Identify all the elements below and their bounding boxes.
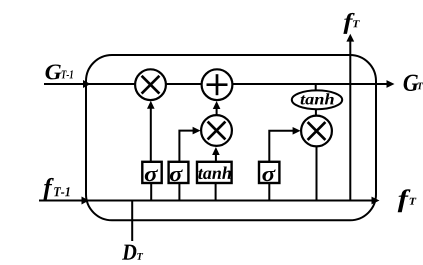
arrowhead into box on main line: [83, 80, 91, 88]
multiplier circle M1 (forget gate ×): [135, 69, 166, 100]
wire: tanh box stem to bus: [215, 183, 217, 201]
arrowhead into box on bottom line: [82, 197, 90, 205]
arrowhead into M1: [147, 101, 155, 109]
wire: sigma1 stem to bus: [150, 183, 152, 201]
tanh ellipse T1: [292, 90, 342, 109]
gate box S3 (sigma): [259, 162, 279, 183]
arrowhead into A1 bottom: [213, 101, 221, 109]
wire: main cell-state line: [44, 83, 390, 85]
arrowhead bottom bus output: [372, 197, 380, 205]
node G_T-1 label: [46, 65, 62, 80]
node f_T top label: [343, 13, 354, 34]
wire: sigma2 up and right to M2: [179, 131, 196, 162]
wire: main line tick down to tanh ellipse: [315, 84, 317, 91]
node D_T label: [122, 245, 136, 260]
multiplier circle M3 (output gate ×): [301, 116, 332, 147]
gate box T2 (tanh): [197, 162, 232, 183]
cell body rounded box: [86, 55, 376, 220]
wire: D_T input riser: [131, 201, 133, 242]
wire: hidden-state riser to f_T: [349, 39, 351, 201]
node f_T bottom-right label: [398, 189, 411, 212]
wire: M2 output up to A1: [216, 105, 218, 115]
gate box S1 (sigma): [142, 162, 161, 183]
wire: sigma3 up and right to M3: [269, 131, 296, 162]
wire: tanh box up to M2: [215, 150, 217, 162]
arrowhead f_T top: [346, 34, 354, 42]
adder circle A1 (+): [202, 69, 233, 100]
wire: sigma3 stem to bus: [268, 183, 270, 201]
gate box S2 (sigma): [169, 162, 189, 183]
wire: tanh ellipse down to M3: [315, 109, 317, 116]
arrowhead main line output: [387, 80, 395, 88]
arrowhead into M2 left: [193, 127, 201, 135]
wire: sigma2 stem to bus: [178, 183, 180, 201]
arrowhead into M3 left: [293, 127, 301, 135]
node f_T-1 label: [43, 178, 54, 201]
node G_T label: [404, 75, 419, 91]
multiplier circle M2 (input gate ×): [201, 115, 232, 146]
wire: bottom bus line: [39, 200, 375, 202]
wire: sigma1 up to M1: [150, 104, 152, 162]
arrowhead into M2 bottom: [212, 147, 220, 155]
wire: M3 down to bus: [316, 147, 318, 201]
